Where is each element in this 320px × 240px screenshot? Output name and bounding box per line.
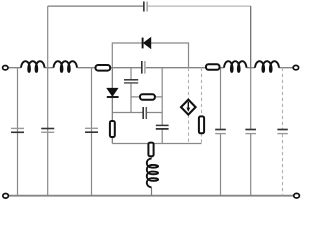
dependent source S1 diamond	[181, 100, 196, 115]
inductor L5 vertical	[147, 158, 158, 187]
wire top rail left dark	[48, 5, 144, 7]
wire mid net y112.5	[112, 112, 162, 114]
resistor R5	[199, 116, 204, 133]
inductor L4	[255, 61, 279, 72]
wire bottom mid	[112, 143, 201, 145]
wire bottom branch stubs x151	[150, 156, 152, 195]
wire shunt column x17.5	[17, 68, 19, 196]
terminal T4	[294, 193, 300, 198]
wire bottom rail	[9, 195, 294, 197]
wire R3 leads	[131, 96, 162, 98]
wire dashed resistor branch x201.5	[201, 68, 203, 144]
wire main line right	[220, 67, 294, 69]
wire top rail right light	[148, 5, 251, 7]
resistor R3	[140, 94, 155, 100]
wire main line middle	[110, 67, 206, 69]
wire top rail left drop	[47, 6, 49, 68]
diode D1	[143, 38, 151, 49]
wire shunt column x220.5	[220, 68, 222, 196]
wire dashed shunt column x282.5	[282, 68, 284, 196]
resistor R2	[206, 64, 220, 70]
capacitor C2 series main	[142, 61, 145, 74]
wire branch x162	[161, 68, 163, 144]
inductor L2	[54, 61, 78, 72]
capacitor C6	[124, 80, 138, 83]
capacitor C11 shunt	[277, 130, 287, 134]
wire shunt column x91.5	[91, 68, 93, 196]
resistor R4	[110, 121, 115, 137]
capacitor C8	[156, 125, 169, 128]
terminal T2	[293, 65, 298, 69]
diode D2	[107, 88, 119, 97]
inductor L1	[21, 61, 45, 72]
wire top rail right drop	[250, 6, 252, 68]
capacitor C9 shunt	[215, 130, 226, 134]
capacitor C4 shunt	[41, 129, 54, 133]
wire diode branch x112.3	[111, 68, 113, 144]
wire branch x131	[130, 68, 132, 113]
wire shunt column x47.7	[47, 68, 49, 196]
resistor R6	[148, 143, 153, 157]
wire dashed source branch x188.5	[188, 68, 190, 144]
wire diode loop	[112, 43, 188, 68]
capacitor C3 shunt	[11, 128, 24, 132]
capacitor C7 series mid	[143, 107, 146, 119]
capacitor C10 shunt	[245, 130, 256, 134]
capacitor C5 shunt	[85, 128, 98, 132]
resistor R1	[96, 65, 111, 71]
capacitor C1 top	[144, 2, 147, 12]
terminal T3	[3, 194, 9, 199]
inductor L3	[224, 61, 247, 72]
terminal T1	[3, 66, 8, 70]
wire main line left	[8, 67, 96, 69]
wire shunt column x250.7	[250, 68, 252, 196]
